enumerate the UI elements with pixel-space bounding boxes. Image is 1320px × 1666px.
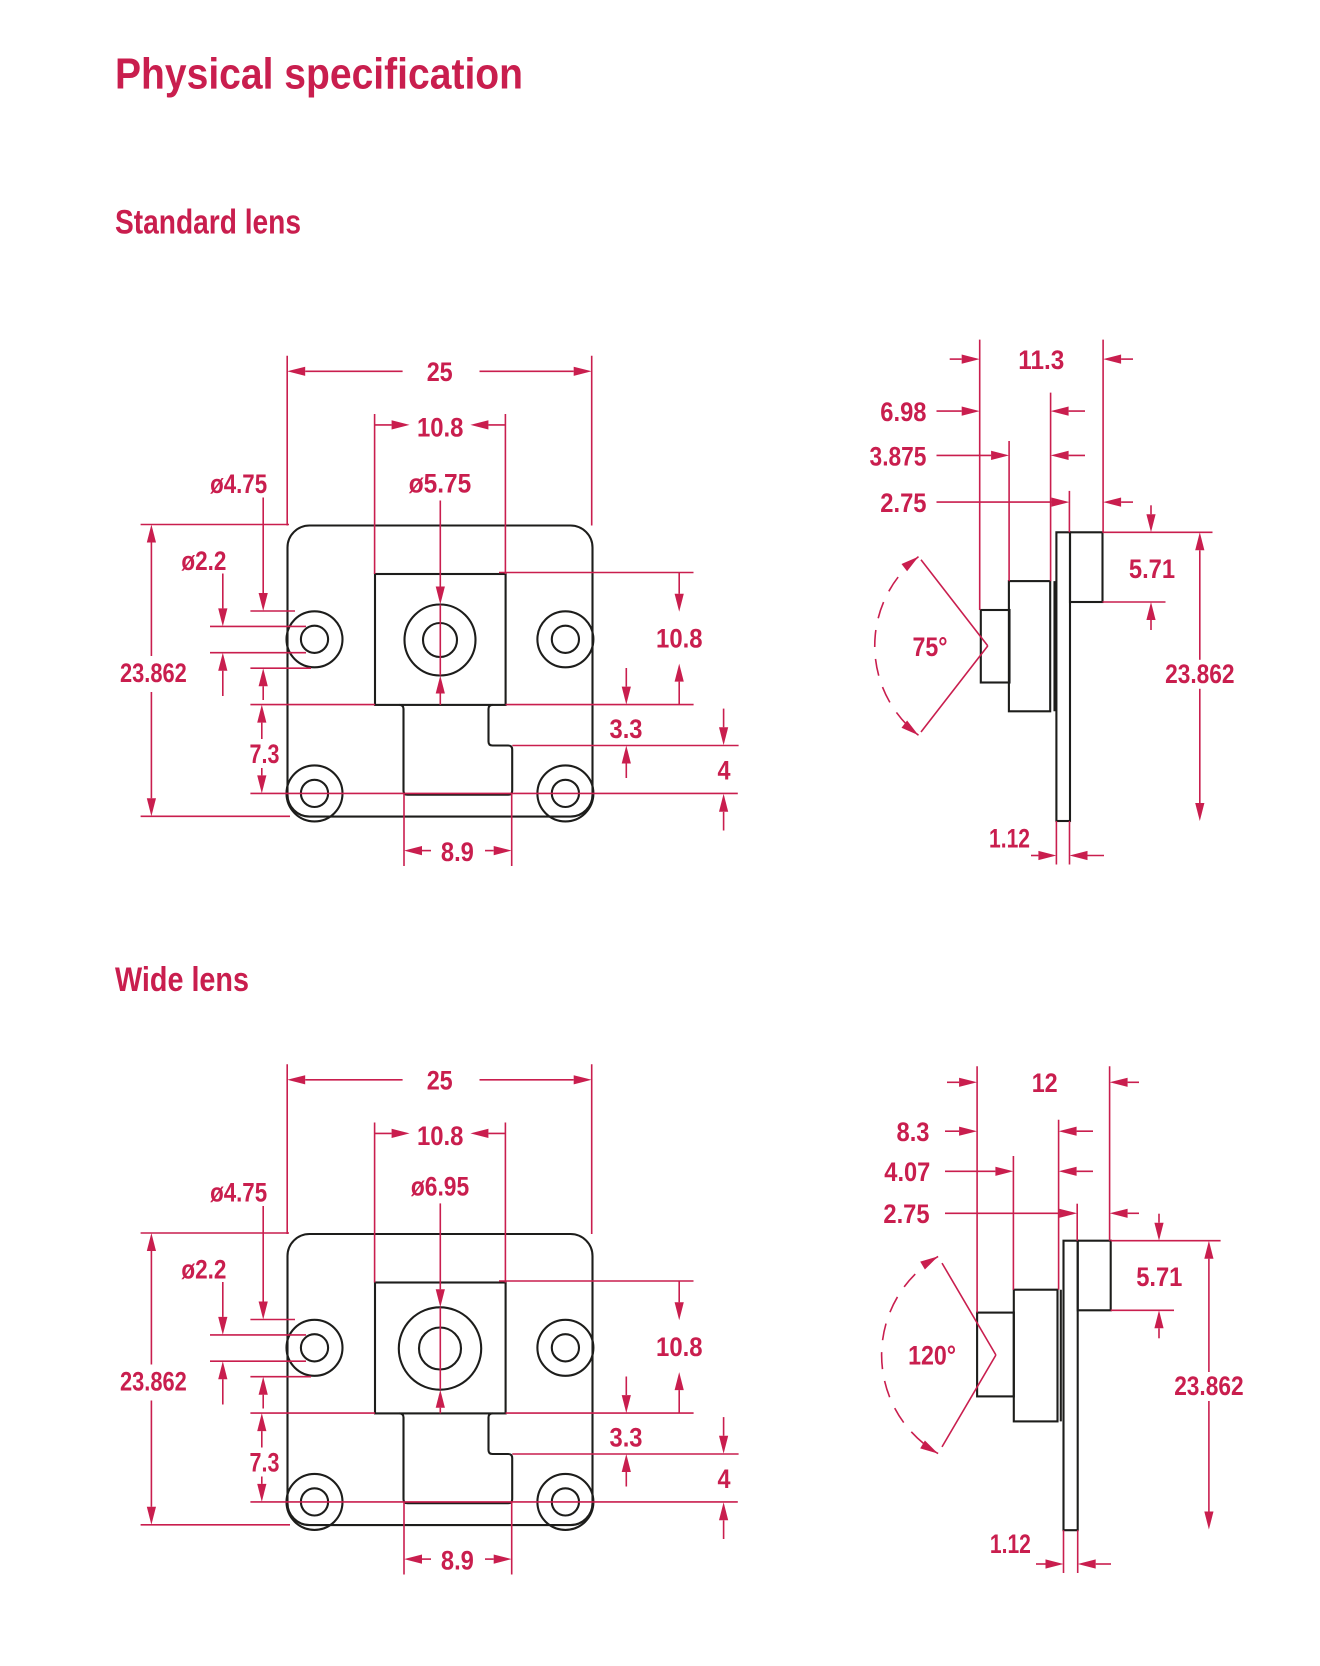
svg-text:ø4.75: ø4.75: [210, 1178, 267, 1208]
mounting hole top-right (wide front view): [537, 1320, 593, 1376]
sensor housing square (wide front view): [375, 1283, 506, 1414]
flex cable outline with notch (wide front view): [400, 1413, 513, 1503]
svg-text:10.8: 10.8: [656, 1332, 703, 1362]
dimension 10.8 top (standard front view): [375, 412, 506, 574]
dimension 23.862 (standard front view): [120, 525, 290, 817]
svg-text:23.862: 23.862: [1165, 659, 1234, 689]
dimension 3.3 (standard front view): [512, 668, 738, 778]
svg-text:25: 25: [427, 1065, 453, 1095]
svg-text:25: 25: [427, 357, 453, 387]
svg-text:23.862: 23.862: [120, 1367, 187, 1397]
title: Physical specification: [115, 50, 523, 99]
mounting hole top-left (wide front view): [287, 1320, 343, 1376]
svg-text:4: 4: [718, 755, 731, 785]
lens diameter label ø6.95 (wide front view): [411, 1171, 469, 1413]
dimension 4 (wide front view): [718, 1417, 731, 1539]
lens barrel circles (wide front view): [399, 1307, 481, 1389]
svg-text:10.8: 10.8: [417, 1121, 464, 1151]
FOV cone 120° (wide side view): [882, 1256, 996, 1453]
lens diameter label ø5.75 (standard front view): [409, 469, 472, 705]
svg-text:7.3: 7.3: [250, 1448, 280, 1478]
dimension 8.3 (wide side view): [897, 1117, 1094, 1147]
svg-text:11.3: 11.3: [1018, 345, 1064, 375]
extension line 5 (wide side view): [1109, 1066, 1111, 1240]
svg-text:4.07: 4.07: [884, 1157, 930, 1187]
svg-text:23.862: 23.862: [1174, 1371, 1243, 1401]
dimension 10.8 right (standard front view): [499, 573, 703, 705]
lens barrel (wide side view): [977, 1313, 1014, 1397]
dimension 7.3 (standard front view): [250, 705, 280, 794]
svg-text:2.75: 2.75: [883, 1199, 929, 1229]
extension line 2 (standard side view): [1008, 441, 1010, 581]
svg-text:Wide lens: Wide lens: [115, 961, 249, 999]
svg-text:Physical specification: Physical specification: [115, 50, 523, 99]
svg-text:2.75: 2.75: [880, 488, 926, 518]
dimension 8.9 (wide front view): [404, 1503, 512, 1576]
svg-text:12: 12: [1032, 1068, 1058, 1098]
mounting hole bottom-right (standard front view): [537, 765, 593, 821]
svg-text:Standard lens: Standard lens: [115, 204, 301, 242]
dimension 25 (wide front view): [287, 1064, 592, 1234]
svg-text:10.8: 10.8: [656, 624, 703, 654]
FOV cone 75° (standard side view): [875, 557, 988, 736]
svg-text:1.12: 1.12: [989, 824, 1030, 854]
svg-text:120°: 120°: [908, 1340, 956, 1370]
dimension 5.71 (standard side view): [1103, 505, 1213, 630]
hole pad diameter label ø4.75 (wide front view): [210, 1178, 311, 1409]
svg-text:75°: 75°: [913, 632, 948, 662]
dimension 4 (standard front view): [718, 709, 731, 831]
dimension 6.98 (standard side view): [880, 397, 1085, 427]
svg-text:7.3: 7.3: [250, 739, 280, 769]
svg-text:ø2.2: ø2.2: [181, 1255, 226, 1285]
reference line inner-square bottom (standard front view): [250, 704, 693, 706]
svg-text:ø6.95: ø6.95: [411, 1171, 469, 1201]
svg-text:6.98: 6.98: [880, 397, 926, 427]
extension line 1 (wide side view): [976, 1066, 978, 1312]
PCB body outline (wide front view): [288, 1234, 593, 1525]
PCB side profile (wide side view): [1064, 1241, 1078, 1531]
svg-text:ø5.75: ø5.75: [409, 469, 472, 499]
svg-text:8.3: 8.3: [897, 1117, 930, 1147]
extension line 4 (wide side view): [1076, 1204, 1078, 1241]
svg-text:5.71: 5.71: [1129, 554, 1175, 584]
mounting hole bottom-right (wide front view): [537, 1474, 593, 1530]
sensor housing block (wide side view): [1014, 1290, 1058, 1422]
extension line 4 (standard side view): [1068, 491, 1070, 532]
hole diameter label ø2.2 (standard front view): [181, 546, 306, 696]
extension line 3 (wide side view): [1058, 1120, 1060, 1290]
svg-text:5.71: 5.71: [1136, 1262, 1182, 1292]
svg-text:3.3: 3.3: [610, 714, 643, 744]
svg-text:4: 4: [718, 1464, 731, 1494]
heading: Wide lens: [115, 961, 249, 999]
hole pad diameter label ø4.75 (standard front view): [210, 469, 311, 700]
svg-text:23.862: 23.862: [120, 658, 187, 688]
hole diameter label ø2.2 (wide front view): [181, 1255, 306, 1405]
extension line 1 (standard side view): [979, 340, 981, 610]
PCB side profile (standard side view): [1056, 532, 1070, 821]
svg-text:3.3: 3.3: [610, 1423, 643, 1453]
sensor housing square (standard front view): [375, 574, 506, 705]
svg-text:ø2.2: ø2.2: [181, 546, 226, 576]
FFC connector block (wide side view): [1078, 1241, 1111, 1311]
mounting hole bottom-left (standard front view): [287, 765, 343, 821]
dimension 1.12 (wide side view): [990, 1529, 1111, 1573]
svg-text:1.12: 1.12: [990, 1529, 1031, 1559]
FFC connector block (standard side view): [1070, 532, 1103, 602]
dimension 3.875 (standard side view): [870, 442, 1085, 472]
dimension 25 (standard front view): [287, 356, 592, 526]
flex cable outline with notch (standard front view): [400, 705, 513, 795]
dimension 3.3 (wide front view): [512, 1377, 738, 1487]
dimension 11.3 (standard side view): [950, 345, 1133, 375]
svg-text:10.8: 10.8: [417, 412, 464, 442]
svg-text:8.9: 8.9: [441, 1546, 474, 1576]
dimension 23.862 (wide front view): [120, 1233, 290, 1525]
svg-text:3.875: 3.875: [870, 442, 927, 472]
housing-PCB gap line (wide side view): [1060, 1290, 1062, 1422]
heading: Standard lens: [115, 204, 301, 242]
PCB body outline (standard front view): [288, 526, 593, 817]
svg-text:ø4.75: ø4.75: [210, 469, 267, 499]
mounting hole top-left (standard front view): [287, 611, 343, 667]
mounting hole bottom-left (wide front view): [287, 1474, 343, 1530]
dimension 23.862 (standard side view): [1165, 532, 1234, 821]
dimension 2.75 (wide side view): [883, 1199, 1139, 1229]
dimension 8.9 (standard front view): [404, 794, 512, 867]
dimension 10.8 top (wide front view): [375, 1121, 506, 1283]
extension line 5 (standard side view): [1102, 340, 1104, 533]
dimension 7.3 (wide front view): [250, 1413, 280, 1502]
dimension 12 (wide side view): [947, 1068, 1139, 1098]
sensor housing block (standard side view): [1009, 581, 1050, 711]
reference line hole centres (standard front view): [250, 792, 737, 794]
mounting hole top-right (standard front view): [537, 611, 593, 667]
reference line hole centres (wide front view): [250, 1501, 737, 1503]
dimension 2.75 (standard side view): [880, 488, 1133, 518]
dimension 5.71 (wide side view): [1111, 1214, 1221, 1339]
lens barrel circles (standard front view): [405, 605, 476, 676]
dimension 23.862 (wide side view): [1174, 1241, 1243, 1530]
dimension 4.07 (wide side view): [884, 1157, 1093, 1187]
housing-PCB gap line (standard side view): [1053, 581, 1055, 711]
lens barrel (standard side view): [981, 610, 1010, 683]
extension line 3 (standard side view): [1050, 393, 1052, 581]
dimension 10.8 right (wide front view): [499, 1281, 703, 1413]
reference line inner-square bottom (wide front view): [250, 1412, 693, 1414]
svg-text:8.9: 8.9: [441, 837, 474, 867]
dimension 1.12 (standard side view): [989, 821, 1104, 865]
extension line 2 (wide side view): [1012, 1156, 1014, 1290]
